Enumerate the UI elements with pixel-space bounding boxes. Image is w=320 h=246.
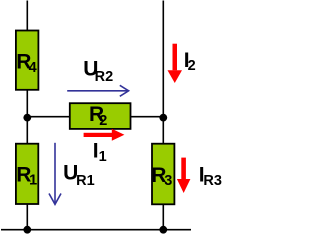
current arrow I2 (red, downward) <box>168 44 183 83</box>
svg-text:1: 1 <box>99 149 107 165</box>
resistor R1 <box>16 144 38 204</box>
node D: junction dot bottom right <box>159 226 167 234</box>
label UR2 <box>83 58 113 85</box>
node B: junction dot right of R2 <box>159 114 167 122</box>
svg-text:R2: R2 <box>95 69 114 85</box>
svg-text:4: 4 <box>29 60 37 76</box>
label I2 <box>184 49 196 74</box>
wire: left vertical branch <box>26 1 28 230</box>
wire: right vertical branch <box>162 1 164 230</box>
node A: junction dot left of R2 <box>23 114 31 122</box>
wire: middle horizontal branch through R2 <box>27 116 163 118</box>
resistor R3 <box>151 144 174 205</box>
label I1 <box>93 140 107 166</box>
current arrow IR3 (red, downward) <box>177 158 191 193</box>
svg-text:1: 1 <box>29 173 37 189</box>
resistor R4 <box>16 31 39 90</box>
svg-text:R3: R3 <box>203 173 222 189</box>
label UR1 <box>63 162 95 190</box>
svg-text:R1: R1 <box>76 173 95 189</box>
voltage arrow UR2 (blue, rightward open head) <box>67 85 128 96</box>
resistor R2 <box>70 103 131 129</box>
node C: junction dot bottom left <box>23 226 31 234</box>
label IR3 <box>199 164 222 189</box>
voltage arrow UR1 (blue, downward open head) <box>49 143 61 205</box>
svg-text:3: 3 <box>164 173 172 189</box>
svg-text:2: 2 <box>99 113 107 129</box>
wire: bottom horizontal rail <box>1 229 191 231</box>
current arrow I1 (red, rightward) <box>84 129 125 141</box>
svg-text:2: 2 <box>188 58 196 74</box>
